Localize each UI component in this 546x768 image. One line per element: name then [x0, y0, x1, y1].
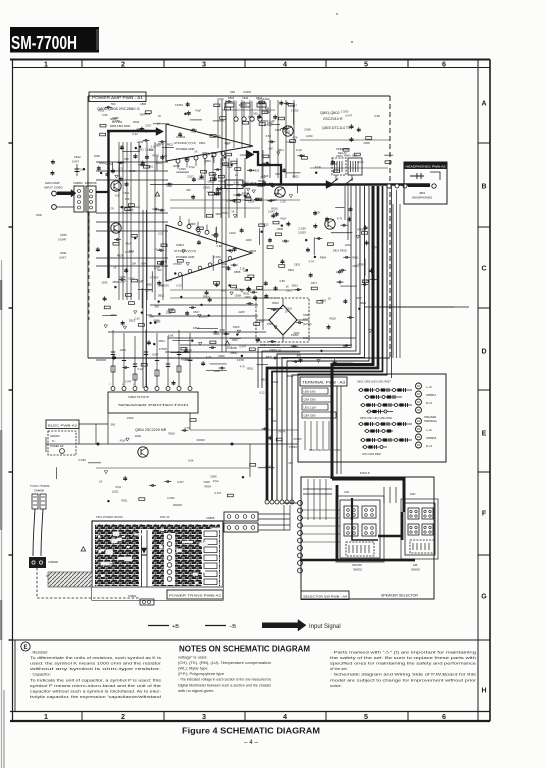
- svg-text:47/50V: 47/50V: [239, 103, 248, 107]
- svg-text:47μF: 47μF: [280, 216, 287, 220]
- svg-text:0.047: 0.047: [177, 480, 184, 484]
- svg-text:1K: 1K: [194, 149, 197, 153]
- svg-text:10K: 10K: [268, 147, 273, 151]
- svg-text:0.047: 0.047: [215, 491, 222, 495]
- svg-text:R818: R818: [329, 316, 336, 320]
- svg-text:· Parts marked with “⚠” (!) ar: · Parts marked with “⚠” (!) are importan…: [330, 650, 476, 655]
- svg-text:C: C: [481, 266, 486, 273]
- svg-text:C812: C812: [74, 155, 81, 159]
- svg-text:2.2K: 2.2K: [151, 145, 157, 149]
- svg-text:47μF: 47μF: [189, 165, 196, 169]
- svg-text:C808: C808: [363, 141, 370, 145]
- svg-text:R808: R808: [358, 227, 365, 231]
- svg-text:D801: D801: [267, 322, 274, 326]
- svg-text:6.8K: 6.8K: [141, 261, 147, 265]
- svg-text:120Ω: 120Ω: [157, 283, 164, 287]
- svg-text:4.7K: 4.7K: [337, 217, 343, 221]
- svg-text:C831: C831: [137, 148, 144, 152]
- svg-text:R811: R811: [278, 148, 285, 152]
- svg-text:120Ω: 120Ω: [345, 243, 352, 247]
- svg-text:3.3/50: 3.3/50: [341, 110, 349, 114]
- svg-text:+B: +B: [172, 624, 179, 630]
- svg-text:STK4191(Y)(Y2): STK4191(Y)(Y2): [174, 141, 196, 145]
- svg-text:220P: 220P: [231, 346, 237, 350]
- svg-text:Q804 2SC2229 MR: Q804 2SC2229 MR: [135, 428, 167, 432]
- svg-text:B1802 B: B1802 B: [360, 472, 370, 475]
- svg-text:R811: R811: [159, 339, 166, 343]
- svg-text:R835: R835: [114, 188, 121, 192]
- svg-text:CN8905: CN8905: [48, 560, 58, 564]
- svg-text:33K: 33K: [186, 188, 191, 192]
- svg-text:C808: C808: [304, 127, 311, 131]
- svg-text:C844: C844: [242, 96, 249, 100]
- svg-text:HEADPHONES: HEADPHONES: [412, 196, 432, 200]
- svg-text:1/50V: 1/50V: [127, 416, 134, 420]
- svg-text:D812: D812: [333, 249, 340, 253]
- svg-text:560: 560: [156, 144, 161, 148]
- svg-text:47/50V: 47/50V: [184, 358, 193, 362]
- svg-text:10K: 10K: [132, 262, 137, 266]
- svg-text:6.8K: 6.8K: [220, 328, 226, 332]
- svg-text:100K: 100K: [221, 262, 227, 266]
- svg-text:Figure 4 SCHEMATIC DIAGRAM: Figure 4 SCHEMATIC DIAGRAM: [182, 726, 320, 736]
- svg-text:1/50V: 1/50V: [203, 153, 210, 157]
- svg-text:100P: 100P: [146, 313, 152, 317]
- svg-text:C826: C826: [203, 480, 210, 484]
- svg-text:D801: D801: [199, 141, 206, 145]
- svg-text:560: 560: [301, 153, 306, 157]
- svg-text:Q803 DTC114 TS: Q803 DTC114 TS: [322, 126, 351, 130]
- svg-text:47μF: 47μF: [195, 109, 202, 113]
- svg-text:6: 6: [442, 712, 446, 721]
- svg-text:C808: C808: [270, 198, 277, 202]
- svg-text:POWER AMP: POWER AMP: [176, 147, 195, 151]
- svg-text:R835: R835: [152, 153, 159, 157]
- svg-text:R808: R808: [189, 222, 196, 226]
- svg-text:4.7K: 4.7K: [308, 259, 314, 263]
- svg-text:1/50V: 1/50V: [105, 162, 112, 166]
- svg-text:0.047: 0.047: [239, 344, 246, 348]
- svg-text:6.8K: 6.8K: [266, 134, 272, 138]
- svg-text:R822: R822: [99, 161, 106, 165]
- svg-text:specified ones for maintaining: specified ones for maintaining the safet…: [330, 661, 477, 666]
- svg-text:D801: D801: [336, 154, 343, 158]
- svg-text:IC801: IC801: [176, 243, 184, 247]
- svg-text:CN#808: CN#808: [34, 489, 44, 493]
- svg-text:0.047: 0.047: [345, 114, 352, 118]
- svg-text:(WL): Mylar type: (WL): Mylar type: [178, 666, 208, 671]
- svg-text:R822: R822: [292, 175, 299, 179]
- svg-text:0.22: 0.22: [263, 223, 269, 227]
- svg-text:560: 560: [253, 111, 258, 115]
- svg-text:R822: R822: [156, 161, 163, 165]
- svg-text:R202: R202: [410, 494, 416, 496]
- svg-text:R811: R811: [247, 367, 254, 371]
- svg-text:used: the symbol K means 1000: used: the symbol K means 1000 ohm and th…: [30, 661, 162, 666]
- svg-text:· The indicated voltage in eac: · The indicated voltage in each section …: [178, 677, 272, 682]
- svg-text:C811: C811: [60, 251, 67, 255]
- svg-text:T801 POWER TRANS: T801 POWER TRANS: [96, 515, 123, 519]
- svg-text:R828: R828: [173, 164, 180, 168]
- svg-text:1K: 1K: [328, 297, 331, 301]
- svg-text:1/50V: 1/50V: [242, 180, 249, 184]
- svg-text:SR2: SR2: [230, 90, 236, 94]
- svg-text:SPEAKER: SPEAKER: [424, 415, 436, 419]
- svg-text:SELECTOR SW PWB - A4: SELECTOR SW PWB - A4: [303, 595, 347, 599]
- svg-text:TERMINAL PWB - A3: TERMINAL PWB - A3: [302, 381, 345, 385]
- svg-text:R804: R804: [320, 256, 327, 260]
- svg-text:L801: L801: [227, 183, 233, 187]
- svg-text:SP808 B: SP808 B: [426, 436, 437, 440]
- svg-text:L–ch: L–ch: [426, 428, 432, 432]
- svg-text:47μF: 47μF: [125, 241, 132, 245]
- svg-text:1/50V: 1/50V: [179, 167, 186, 171]
- svg-text:(1/2W): (1/2W): [303, 322, 311, 326]
- svg-text:C831: C831: [166, 184, 173, 188]
- svg-text:33K: 33K: [288, 461, 293, 465]
- svg-text:33K: 33K: [139, 113, 144, 117]
- svg-text:model are subject to change fo: model are subject to change for improvem…: [330, 677, 477, 682]
- svg-text:C826: C826: [262, 174, 269, 178]
- svg-text:C854 C860: C854 C860: [304, 415, 317, 418]
- svg-text:0.22: 0.22: [138, 367, 144, 371]
- svg-text:0.22: 0.22: [191, 129, 197, 133]
- svg-text:3.3/50: 3.3/50: [213, 255, 221, 259]
- svg-text:3.3/50: 3.3/50: [298, 226, 306, 230]
- svg-text:Input Signal: Input Signal: [309, 624, 341, 630]
- svg-text:AB31 C856 L803 C851 R857: AB31 C856 L803 C851 R857: [357, 380, 391, 384]
- svg-text:33K: 33K: [224, 332, 229, 336]
- svg-text:D803: D803: [228, 96, 235, 100]
- svg-text:L–ch: L–ch: [426, 385, 432, 389]
- svg-text:3.3/50: 3.3/50: [237, 358, 245, 362]
- svg-text:100P: 100P: [152, 353, 158, 357]
- svg-text:C808: C808: [277, 227, 284, 231]
- svg-text:4.7K: 4.7K: [206, 355, 212, 359]
- svg-text:33K: 33K: [125, 197, 130, 201]
- svg-text:6.8K: 6.8K: [374, 114, 380, 118]
- svg-text:3.3/50: 3.3/50: [78, 458, 86, 462]
- svg-text:R818: R818: [340, 248, 347, 252]
- svg-text:symbol P means micro-micro-far: symbol P means micro-micro-farad and the…: [30, 683, 162, 688]
- svg-text:1/50V: 1/50V: [233, 325, 240, 329]
- svg-text:47μF: 47μF: [115, 485, 122, 489]
- svg-text:ON/OFF: ON/OFF: [352, 563, 363, 567]
- svg-text:1K: 1K: [285, 310, 288, 314]
- svg-text:1K: 1K: [286, 284, 289, 288]
- svg-text:with no signal given.: with no signal given.: [178, 688, 214, 693]
- svg-text:C808: C808: [218, 354, 225, 358]
- svg-text:D812: D812: [218, 179, 225, 183]
- svg-text:R835: R835: [250, 249, 257, 253]
- svg-text:R808: R808: [113, 280, 120, 284]
- svg-text:4.7K: 4.7K: [184, 426, 190, 430]
- svg-text:1: 1: [44, 712, 48, 721]
- svg-text:1S953: 1S953: [289, 445, 297, 449]
- svg-text:3: 3: [202, 712, 206, 721]
- svg-text:1K: 1K: [235, 173, 238, 177]
- svg-text:120Ω: 120Ω: [120, 348, 127, 352]
- svg-text:2.2K: 2.2K: [280, 199, 286, 203]
- svg-text:RL801: RL801: [330, 164, 337, 166]
- svg-text:1: 1: [44, 59, 48, 68]
- svg-text:47μF: 47μF: [315, 165, 322, 169]
- svg-text:C817: C817: [286, 289, 293, 293]
- svg-text:0.0047: 0.0047: [58, 238, 67, 242]
- svg-text:capacitor without such a symbo: capacitor without such a symbol is micto…: [30, 688, 162, 693]
- svg-text:R804: R804: [204, 485, 211, 489]
- svg-text:3.3/50: 3.3/50: [291, 108, 299, 112]
- svg-text:100K: 100K: [245, 238, 251, 242]
- svg-text:POWER AMP: POWER AMP: [176, 255, 195, 259]
- svg-text:R811: R811: [133, 120, 140, 124]
- svg-text:of the set.: of the set.: [330, 666, 348, 671]
- svg-text:1/50V: 1/50V: [221, 211, 228, 215]
- svg-text:120Ω: 120Ω: [112, 489, 119, 493]
- svg-text:2.2K: 2.2K: [276, 348, 282, 352]
- svg-text:0.047: 0.047: [264, 110, 271, 114]
- svg-text:R811: R811: [284, 129, 291, 133]
- svg-text:R835: R835: [127, 208, 134, 212]
- svg-text:L801 2.2μH: L801 2.2μH: [304, 407, 317, 410]
- svg-text:CN804: CN804: [128, 594, 137, 598]
- svg-text:F: F: [482, 511, 487, 518]
- svg-text:voltage” is used.: voltage” is used.: [178, 655, 207, 660]
- svg-text:A/B: A/B: [413, 563, 418, 567]
- svg-text:SM-7700H: SM-7700H: [11, 32, 77, 53]
- svg-text:R–ch: R–ch: [426, 444, 433, 448]
- svg-text:47μF: 47μF: [154, 248, 161, 252]
- svg-text:LED801: LED801: [50, 434, 60, 438]
- svg-text:120Ω: 120Ω: [135, 434, 142, 438]
- svg-text:10K: 10K: [115, 194, 120, 198]
- svg-text:R811: R811: [266, 355, 273, 359]
- svg-text:– 4 –: – 4 –: [244, 739, 259, 746]
- svg-text:47/50V: 47/50V: [159, 347, 168, 351]
- svg-text:· Schematic diagram and Wiring: · Schematic diagram and Wiring Side of P…: [330, 672, 476, 677]
- svg-text:1/50V: 1/50V: [257, 319, 264, 323]
- svg-text:6.8K: 6.8K: [280, 279, 286, 283]
- svg-text:TL-: TL-: [52, 440, 56, 443]
- svg-text:D812: D812: [231, 350, 238, 354]
- svg-text:3.3/50: 3.3/50: [167, 496, 175, 500]
- svg-text:D801: D801: [128, 277, 135, 281]
- svg-text:CN#860: CN#860: [73, 181, 83, 185]
- svg-text:120Ω: 120Ω: [286, 306, 293, 310]
- svg-text:2SC2910 R: 2SC2910 R: [323, 117, 343, 121]
- svg-text:R804: R804: [283, 356, 290, 360]
- svg-text:6.8K: 6.8K: [226, 198, 232, 202]
- svg-text:SPEAKER SELECTOR: SPEAKER SELECTOR: [381, 594, 419, 598]
- svg-text:E: E: [482, 431, 487, 438]
- svg-text:J801: J801: [419, 191, 426, 195]
- svg-text:A: A: [481, 101, 486, 108]
- svg-text:120Ω: 120Ω: [240, 153, 247, 157]
- svg-text:· Resistor:: · Resistor:: [30, 650, 48, 655]
- svg-text:L804 C864 R860: L804 C864 R860: [362, 453, 382, 456]
- svg-text:C831: C831: [294, 262, 301, 266]
- svg-text:4.7K: 4.7K: [292, 136, 298, 140]
- svg-text:1K: 1K: [231, 210, 234, 214]
- svg-text:1S953: 1S953: [291, 333, 299, 337]
- svg-text:R835: R835: [258, 179, 265, 183]
- svg-text:C831: C831: [123, 191, 130, 195]
- svg-text:C831: C831: [198, 177, 205, 181]
- svg-text:R804: R804: [223, 163, 230, 167]
- svg-text:100K: 100K: [101, 281, 107, 285]
- svg-text:C854 C860: C854 C860: [304, 399, 317, 402]
- svg-text:R802 C202 L201 C203 R201: R802 C202 L201 C203 R201: [309, 449, 342, 452]
- svg-text:6.8K: 6.8K: [168, 333, 174, 337]
- svg-text:4: 4: [283, 712, 287, 721]
- svg-text:560: 560: [221, 289, 226, 293]
- svg-text:100K: 100K: [231, 338, 237, 342]
- svg-text:120Ω: 120Ω: [263, 97, 270, 101]
- svg-text:0.047: 0.047: [72, 160, 79, 164]
- svg-text:0.22: 0.22: [118, 166, 124, 170]
- svg-text:830: 830: [303, 318, 308, 322]
- svg-text:0.047: 0.047: [59, 256, 66, 260]
- svg-text:220P: 220P: [214, 369, 220, 373]
- svg-text:1K: 1K: [157, 122, 160, 126]
- svg-text:560: 560: [216, 134, 221, 138]
- svg-text:100P: 100P: [94, 154, 100, 158]
- svg-text:47μF: 47μF: [213, 479, 220, 483]
- svg-text:1S953: 1S953: [175, 103, 183, 107]
- svg-text:C808: C808: [210, 474, 217, 478]
- svg-text:C835: C835: [303, 313, 310, 317]
- svg-text:D801: D801: [146, 283, 153, 287]
- svg-text:2.2K: 2.2K: [162, 154, 168, 158]
- svg-text:2: 2: [121, 59, 125, 68]
- svg-text:L805–L806: L805–L806: [304, 391, 317, 394]
- svg-text:0.22: 0.22: [158, 231, 164, 235]
- svg-text:IC802 TA7317P: IC802 TA7317P: [128, 395, 149, 399]
- svg-text:560: 560: [111, 422, 116, 426]
- svg-text:G: G: [481, 594, 487, 601]
- svg-text:R818: R818: [259, 101, 266, 105]
- svg-text:0.047: 0.047: [268, 210, 275, 214]
- svg-text:220P: 220P: [356, 296, 362, 300]
- svg-text:TO DC-7700CM: TO DC-7700CM: [30, 484, 50, 488]
- svg-text:6.8K: 6.8K: [188, 458, 194, 462]
- svg-text:4.7K: 4.7K: [240, 364, 246, 368]
- svg-text:220P: 220P: [239, 310, 245, 314]
- svg-text:NOTES ON SCHEMATIC DIAGRAM: NOTES ON SCHEMATIC DIAGRAM: [179, 644, 310, 654]
- svg-text:0.047: 0.047: [125, 379, 132, 383]
- svg-text:3.3/50: 3.3/50: [112, 119, 120, 123]
- svg-text:D812: D812: [158, 294, 165, 298]
- svg-text:R855 C861 L814 C863 R861: R855 C861 L814 C863 R861: [360, 417, 393, 420]
- svg-text:R826 F801 R841: R826 F801 R841: [110, 124, 131, 128]
- svg-text:0.047: 0.047: [248, 115, 255, 119]
- svg-text:4: 4: [283, 59, 287, 68]
- svg-text:1S953: 1S953: [298, 231, 306, 235]
- svg-text:INPUT CORD: INPUT CORD: [44, 186, 63, 190]
- svg-text:To indicate the unit of capaci: To indicate the unit of capacitor, a sym…: [30, 677, 161, 682]
- svg-text:HEADPHONES PWB-A5: HEADPHONES PWB-A5: [406, 164, 447, 168]
- svg-text:MAIN AMP: MAIN AMP: [45, 181, 60, 185]
- svg-text:trolytic capacitor, the exp: trolytic capacitor, the expression “capa…: [30, 694, 161, 699]
- svg-text:R828: R828: [117, 254, 124, 258]
- svg-text:120Ω: 120Ω: [229, 231, 236, 235]
- svg-text:R808: R808: [129, 169, 136, 173]
- svg-text:0.22: 0.22: [259, 391, 265, 395]
- svg-text:C817: C817: [311, 281, 318, 285]
- svg-text:D801: D801: [205, 159, 212, 163]
- svg-text:notice.: notice.: [330, 683, 342, 688]
- svg-text:6.8K: 6.8K: [217, 244, 223, 248]
- svg-text:R804: R804: [272, 301, 279, 305]
- svg-text:47/50V: 47/50V: [125, 250, 134, 254]
- svg-text:D: D: [481, 349, 486, 356]
- svg-text:C808: C808: [235, 293, 242, 297]
- svg-text:B: B: [481, 184, 486, 191]
- svg-text:120Ω: 120Ω: [256, 184, 263, 188]
- svg-text:C201: C201: [344, 492, 350, 494]
- svg-text:C817: C817: [187, 174, 194, 178]
- svg-text:C815: C815: [60, 233, 67, 237]
- svg-text:2: 2: [121, 712, 125, 721]
- svg-text:TERMINAL: TERMINAL: [424, 419, 438, 423]
- svg-text:6.8K: 6.8K: [234, 181, 240, 185]
- svg-text:1K: 1K: [113, 265, 116, 269]
- svg-text:(CH), (TK), (RN), (UJ): Temper: (CH), (TK), (RN), (UJ): Temperature comp…: [178, 660, 271, 665]
- svg-text:Q801,Q802: Q801,Q802: [320, 111, 340, 115]
- svg-text:220P: 220P: [154, 265, 160, 269]
- svg-text:0.22: 0.22: [133, 132, 139, 136]
- svg-text:CN805: CN805: [206, 516, 215, 520]
- svg-text:POWER TRANS PWB-A2: POWER TRANS PWB-A2: [169, 594, 222, 598]
- svg-text:−B: −B: [229, 624, 236, 630]
- svg-text:5: 5: [364, 59, 368, 68]
- svg-text:C817: C817: [193, 310, 200, 314]
- svg-text:6: 6: [442, 59, 446, 68]
- svg-text:560: 560: [154, 304, 159, 308]
- svg-text:POWER AMP PWB - A1: POWER AMP PWB - A1: [92, 96, 143, 100]
- svg-text:4.7K: 4.7K: [109, 206, 115, 210]
- svg-text:47/50V: 47/50V: [173, 262, 182, 266]
- svg-text:POWER SW: POWER SW: [50, 445, 64, 448]
- svg-text:D801: D801: [288, 268, 295, 272]
- svg-text:To differentiate the units of: To differentiate the units of resistors,…: [30, 655, 161, 660]
- svg-text:1K: 1K: [158, 114, 161, 118]
- svg-text:R811: R811: [121, 499, 128, 503]
- svg-text:R808: R808: [234, 270, 241, 274]
- svg-text:D812: D812: [292, 284, 299, 288]
- svg-text:R818: R818: [168, 431, 175, 435]
- svg-text:1K: 1K: [342, 345, 345, 349]
- svg-text:R822: R822: [167, 142, 174, 146]
- svg-text:R818: R818: [211, 151, 218, 155]
- svg-text:C808: C808: [166, 309, 173, 313]
- svg-text:0.047: 0.047: [145, 289, 152, 293]
- svg-text:47μF: 47μF: [358, 160, 365, 164]
- svg-text:47μF: 47μF: [120, 439, 127, 443]
- svg-text:100K: 100K: [119, 275, 125, 279]
- svg-text:SPEAKER PROTECTION: SPEAKER PROTECTION: [118, 403, 188, 407]
- svg-text:C817: C817: [145, 123, 152, 127]
- svg-text:1S953: 1S953: [203, 186, 211, 190]
- svg-text:· Capacitor:: · Capacitor:: [30, 672, 51, 677]
- svg-text:47μF: 47μF: [257, 98, 264, 102]
- svg-text:C826: C826: [248, 200, 255, 204]
- svg-text:EMP8018: EMP8018: [85, 181, 97, 185]
- svg-text:R822: R822: [360, 301, 367, 305]
- svg-text:ELEC PWB-A2: ELEC PWB-A2: [48, 423, 78, 427]
- svg-text:560: 560: [124, 157, 129, 161]
- svg-text:SP808 A: SP808 A: [426, 393, 436, 397]
